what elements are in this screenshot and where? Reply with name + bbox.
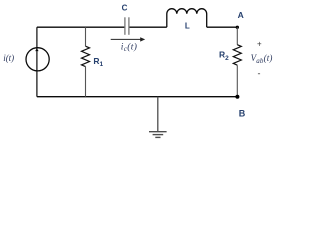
svg-text:R1: R1 <box>93 56 103 68</box>
wire top-left segment <box>37 26 125 28</box>
node B dot <box>235 95 239 99</box>
wire R1 branch upper <box>85 27 87 46</box>
wire right vertical upper <box>236 27 238 44</box>
resistor R2 zigzag <box>233 45 241 65</box>
svg-text:i(t): i(t) <box>3 53 14 63</box>
svg-text:-: - <box>258 69 261 79</box>
svg-text:B: B <box>239 108 246 118</box>
wire left vertical (through source) <box>36 27 38 97</box>
svg-text:+: + <box>257 39 262 48</box>
capacitor C left plate <box>124 17 126 35</box>
svg-text:L: L <box>185 22 190 31</box>
svg-text:R2: R2 <box>219 50 229 62</box>
ground bar 1 <box>149 131 167 133</box>
wire top-middle segment (capacitor to inductor) <box>129 26 167 28</box>
ground stem <box>157 97 159 132</box>
capacitor C right plate <box>128 17 130 35</box>
wire top-right segment (inductor to node A) <box>207 26 238 28</box>
svg-text:ic(t): ic(t) <box>121 41 138 53</box>
wire R1 branch lower <box>85 67 87 97</box>
svg-text:A: A <box>238 10 244 20</box>
node A dot <box>236 26 239 29</box>
ground bar 3 <box>155 136 160 138</box>
current source I1 circle <box>26 48 49 71</box>
inductor L <box>167 9 207 27</box>
wire right vertical lower <box>236 65 238 97</box>
svg-text:C: C <box>122 3 128 12</box>
ground bar 2 <box>153 134 164 136</box>
svg-text:Vab(t): Vab(t) <box>251 53 273 65</box>
current source arrowhead <box>35 48 38 51</box>
current arrow ic <box>111 38 141 40</box>
wire bottom <box>37 96 238 98</box>
resistor R1 zigzag <box>82 46 90 66</box>
